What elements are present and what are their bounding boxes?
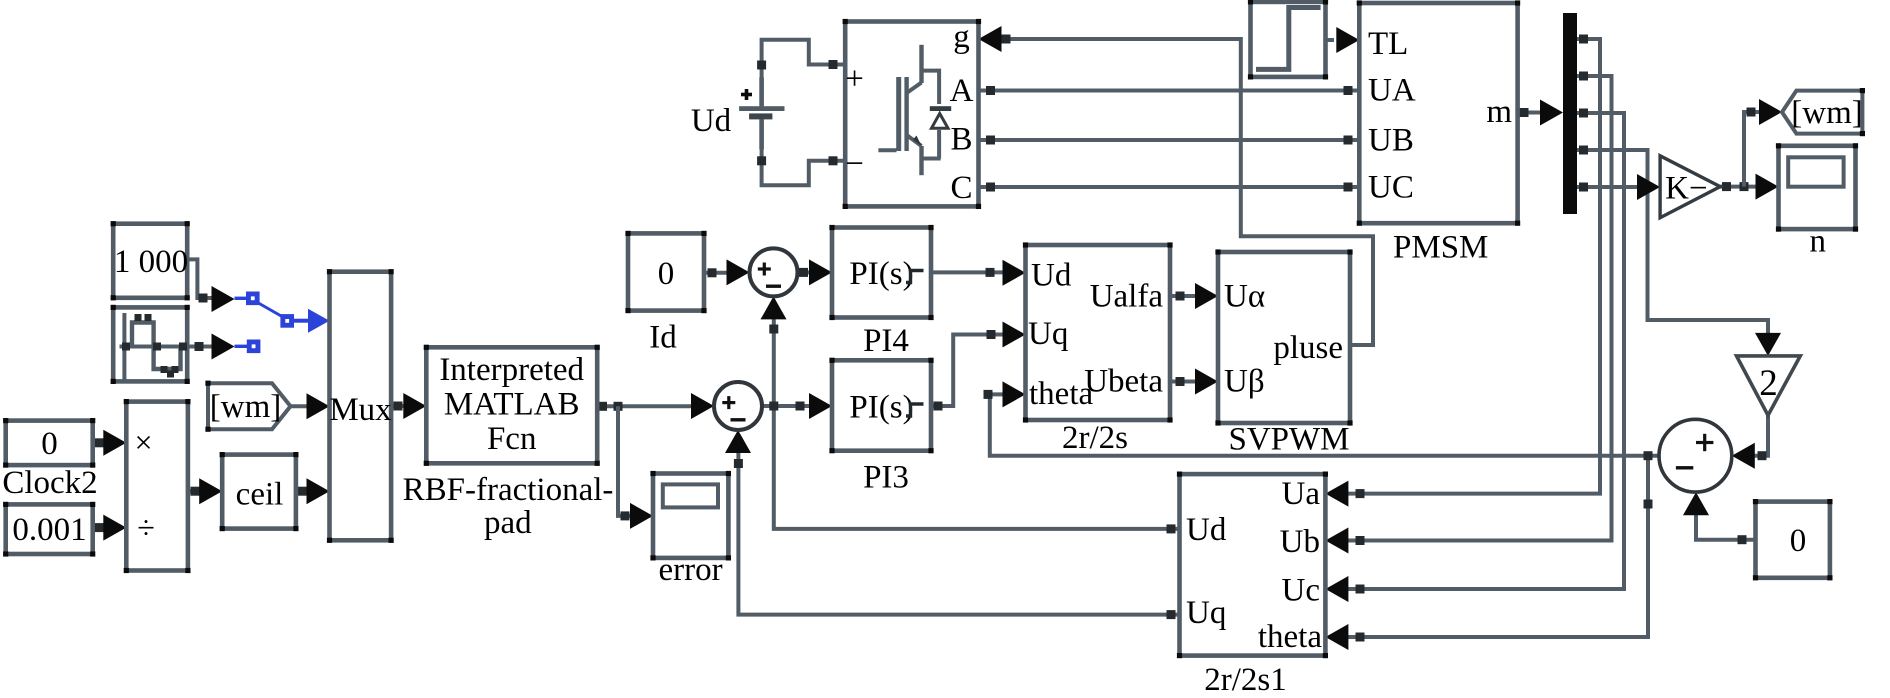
svg-text:Ubeta: Ubeta bbox=[1084, 364, 1163, 400]
svg-text:pluse: pluse bbox=[1273, 330, 1343, 366]
svg-text:ceil: ceil bbox=[236, 477, 284, 513]
svg-text:1 000: 1 000 bbox=[114, 244, 188, 280]
svg-text:Uc: Uc bbox=[1282, 573, 1320, 609]
svg-text:m: m bbox=[1486, 94, 1512, 130]
svg-text:UC: UC bbox=[1368, 170, 1414, 206]
svg-text:Ud: Ud bbox=[1186, 512, 1227, 548]
svg-text:Ud: Ud bbox=[1031, 258, 1072, 294]
svg-text:2: 2 bbox=[1759, 363, 1778, 404]
svg-text:theta: theta bbox=[1258, 619, 1322, 655]
svg-text:g: g bbox=[953, 19, 970, 55]
svg-text:−: − bbox=[845, 146, 864, 182]
svg-text:K−: K− bbox=[1665, 171, 1707, 207]
svg-text:PI(s): PI(s) bbox=[849, 390, 913, 426]
svg-text:Uβ: Uβ bbox=[1224, 364, 1265, 400]
svg-text:0.001: 0.001 bbox=[12, 512, 86, 548]
svg-text:Uq: Uq bbox=[1028, 316, 1068, 352]
svg-text:C: C bbox=[950, 170, 972, 206]
svg-text:Ub: Ub bbox=[1280, 524, 1320, 560]
svg-text:PI3: PI3 bbox=[863, 460, 909, 496]
svg-text:UB: UB bbox=[1368, 123, 1414, 159]
svg-text:Ud: Ud bbox=[691, 103, 732, 139]
svg-text:Interpreted: Interpreted bbox=[439, 352, 584, 388]
svg-text:MATLAB: MATLAB bbox=[444, 387, 580, 423]
svg-text:pad: pad bbox=[484, 505, 532, 541]
svg-text:RBF-fractional-: RBF-fractional- bbox=[403, 472, 614, 508]
svg-text:2r/2s1: 2r/2s1 bbox=[1204, 662, 1287, 693]
svg-text:Clock2: Clock2 bbox=[2, 465, 97, 501]
svg-text:[wm]: [wm] bbox=[210, 389, 281, 425]
svg-text:Fcn: Fcn bbox=[487, 421, 537, 457]
svg-text:[wm]: [wm] bbox=[1791, 95, 1862, 131]
svg-text:+: + bbox=[845, 61, 864, 97]
svg-text:TL: TL bbox=[1368, 26, 1408, 62]
svg-text:2r/2s: 2r/2s bbox=[1062, 420, 1128, 456]
svg-text:PMSM: PMSM bbox=[1393, 230, 1488, 266]
svg-text:B: B bbox=[950, 122, 972, 158]
svg-text:Uq: Uq bbox=[1186, 595, 1226, 631]
svg-text:Ua: Ua bbox=[1282, 476, 1321, 512]
svg-text:÷: ÷ bbox=[137, 509, 155, 545]
svg-text:0: 0 bbox=[41, 426, 58, 462]
svg-text:n: n bbox=[1809, 224, 1826, 260]
svg-text:Uα: Uα bbox=[1224, 279, 1265, 315]
svg-text:SVPWM: SVPWM bbox=[1228, 422, 1349, 458]
svg-text:PI(s): PI(s) bbox=[849, 256, 913, 292]
svg-text:0: 0 bbox=[1790, 523, 1807, 559]
svg-text:Id: Id bbox=[649, 320, 677, 356]
svg-text:Mux: Mux bbox=[329, 392, 392, 428]
svg-text:A: A bbox=[950, 73, 974, 109]
svg-text:0: 0 bbox=[658, 256, 675, 292]
svg-text:error: error bbox=[658, 552, 722, 588]
svg-text:Ualfa: Ualfa bbox=[1090, 279, 1164, 315]
svg-text:UA: UA bbox=[1368, 73, 1416, 109]
svg-text:×: × bbox=[134, 424, 152, 460]
svg-text:PI4: PI4 bbox=[863, 323, 909, 359]
